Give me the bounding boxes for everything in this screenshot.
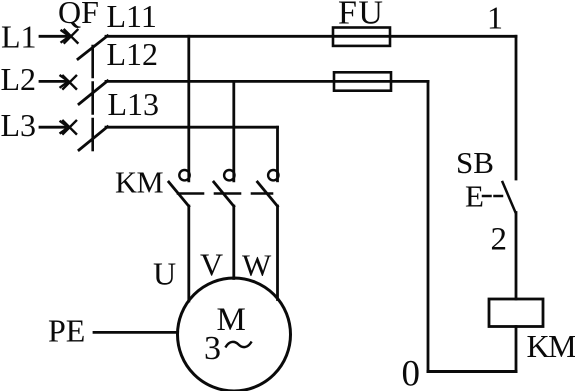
- wire contactor pole 3 to motor W: [276, 206, 279, 300]
- wire contactor pole 2 to motor V: [232, 206, 235, 279]
- wire control circuit left vertical: [427, 81, 430, 371]
- motor M1 body circle: [178, 278, 291, 391]
- wire node 0 bottom horizontal: [428, 370, 516, 373]
- wire coil KM to node 0: [515, 327, 518, 372]
- wire L3 input arrow: [40, 122, 69, 133]
- contactor KM pole 3 fixed terminal circle: [268, 170, 278, 180]
- svg-text:2: 2: [491, 222, 508, 258]
- contactor KM pole 1 fixed terminal circle: [179, 170, 189, 180]
- fuse FU2 body: [334, 72, 391, 90]
- pushbutton SB actuator dashed link: [483, 195, 503, 198]
- svg-text:U: U: [153, 256, 176, 292]
- wire L2 input arrow: [40, 76, 69, 87]
- wire PE to motor: [94, 331, 178, 334]
- breaker QF linkage dashed line: [91, 46, 94, 151]
- svg-text:L2: L2: [1, 61, 37, 97]
- wire drop L11 to contactor pole 1: [187, 36, 190, 181]
- svg-text:W: W: [242, 248, 272, 283]
- wire L1 input arrow: [40, 31, 70, 42]
- wire contactor pole 1 to motor U: [187, 206, 190, 301]
- coil KM body: [489, 299, 543, 327]
- fuse FU1 body: [333, 28, 390, 46]
- contactor KM linkage dashed line: [178, 192, 272, 195]
- contactor KM pole 2 blade: [214, 182, 234, 206]
- wire drop L13 to contactor pole 3: [276, 127, 279, 181]
- svg-text:1: 1: [487, 0, 503, 36]
- breaker QF pole 3 blade: [79, 127, 108, 150]
- svg-text:3: 3: [204, 330, 221, 367]
- svg-text:QF: QF: [58, 0, 99, 30]
- contactor KM pole 3 blade: [258, 182, 278, 206]
- svg-text:L3: L3: [1, 107, 37, 143]
- pushbutton SB blade: [503, 182, 516, 213]
- wire node 1 vertical drop: [515, 36, 518, 179]
- svg-text:KM: KM: [527, 328, 575, 364]
- breaker QF pole 3 contact cross: [63, 121, 76, 134]
- svg-text:SB: SB: [456, 145, 494, 180]
- svg-text:L1: L1: [1, 19, 37, 55]
- wire L13 horizontal: [106, 126, 278, 129]
- svg-text:L11: L11: [107, 0, 157, 34]
- wire L12 horizontal: [106, 80, 428, 83]
- svg-text:PE: PE: [48, 313, 85, 349]
- breaker QF pole 1 blade: [78, 36, 108, 59]
- motor phase tilde: [226, 342, 251, 347]
- svg-text:L13: L13: [108, 86, 160, 122]
- breaker QF pole 1 contact cross: [65, 30, 78, 43]
- svg-text:L12: L12: [107, 36, 159, 72]
- svg-text:E: E: [465, 179, 484, 214]
- breaker QF pole 2 blade: [79, 81, 108, 104]
- svg-text:0: 0: [402, 354, 421, 391]
- wire SB to coil KM: [515, 213, 518, 300]
- svg-text:V: V: [200, 247, 223, 283]
- contactor KM pole 2 fixed terminal circle: [224, 170, 234, 180]
- wire L11 horizontal: [106, 35, 516, 38]
- svg-text:KM: KM: [115, 166, 164, 200]
- wire drop L12 to contactor pole 2: [232, 81, 235, 180]
- breaker QF pole 2 contact cross: [63, 76, 76, 89]
- contactor KM pole 1 blade: [169, 182, 189, 206]
